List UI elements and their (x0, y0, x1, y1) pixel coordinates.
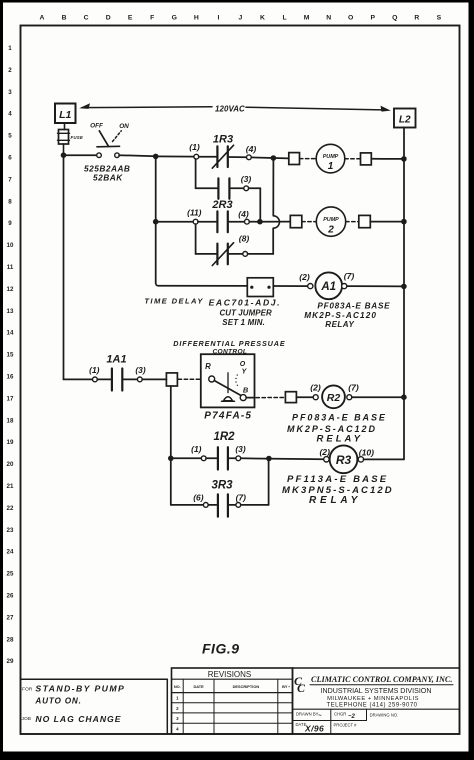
pin (2) of R3 (324, 457, 329, 462)
svg-text:P: P (370, 15, 375, 22)
svg-text:(2): (2) (319, 447, 330, 457)
pin (10) of R3 (358, 457, 363, 462)
svg-text:PF083A-E BASE: PF083A-E BASE (317, 302, 390, 311)
svg-text:(7): (7) (344, 271, 355, 281)
dashed wire to pump1 (300, 158, 317, 160)
svg-text:17: 17 (7, 395, 14, 402)
svg-text:3R3: 3R3 (211, 479, 233, 491)
wire pin4 to node (249, 221, 290, 223)
terminal L2 (394, 109, 416, 128)
pin (7) of 3R3 (236, 503, 241, 508)
svg-text:26: 26 (7, 593, 14, 600)
node rail R2 row (401, 394, 407, 400)
svg-text:9: 9 (8, 220, 12, 227)
terminal L1 (55, 104, 76, 124)
wire pressure control to box (246, 397, 254, 399)
terminal box diff-pressure left (166, 373, 177, 386)
svg-text:N: N (326, 15, 331, 22)
svg-text:3: 3 (8, 89, 12, 96)
svg-text:D: D (106, 15, 111, 22)
svg-text:16: 16 (7, 374, 14, 381)
company block (293, 667, 460, 669)
node rail row1 (401, 156, 407, 162)
svg-text:B: B (243, 386, 249, 395)
svg-text:INDUSTRIAL SYSTEMS DIVISION: INDUSTRIAL SYSTEMS DIVISION (321, 687, 432, 695)
svg-text:23: 23 (7, 527, 14, 534)
node row2 output (257, 219, 263, 225)
svg-text:CUT JUMPER: CUT JUMPER (220, 308, 272, 317)
svg-text:2: 2 (8, 67, 12, 74)
arrowhead to L2 (381, 106, 391, 112)
svg-text:(11): (11) (187, 208, 201, 218)
svg-text:CONTROL: CONTROL (213, 348, 248, 355)
svg-text:DATE: DATE (193, 684, 204, 689)
svg-text:ON: ON (119, 123, 129, 130)
svg-text:MILWAUKEE + MINNEAPOLIS: MILWAUKEE + MINNEAPOLIS (327, 696, 419, 702)
svg-text:22: 22 (7, 505, 14, 512)
svg-text:~: ~ (318, 714, 322, 720)
wire L2 rail (403, 128, 405, 460)
svg-text:6: 6 (8, 155, 12, 162)
svg-text:SET 1 MIN.: SET 1 MIN. (222, 318, 265, 327)
svg-text:L: L (282, 15, 286, 22)
svg-text:(6): (6) (193, 492, 203, 502)
terminal box pump1 left (289, 153, 300, 165)
svg-text:21: 21 (7, 483, 14, 490)
svg-text:JOB: JOB (22, 716, 32, 722)
node 1R2 row (168, 456, 174, 462)
svg-text:2: 2 (327, 224, 334, 235)
svg-text:1R3: 1R3 (213, 134, 233, 146)
pin (8) (243, 252, 248, 257)
pin (2) of R2 (313, 395, 318, 400)
svg-text:C: C (84, 15, 89, 22)
relay coil A1 (315, 272, 342, 299)
pin (6) of 3R3 (203, 503, 208, 508)
svg-text:TIME DELAY: TIME DELAY (144, 297, 203, 306)
wire L1 to switch (64, 154, 97, 156)
wire ladder bus down (155, 156, 157, 283)
time delay relay EAC701 (247, 278, 273, 297)
relay coil R3 (330, 445, 358, 473)
dashed wire to pump2 (302, 221, 316, 223)
svg-text:RELAY: RELAY (325, 320, 354, 329)
svg-text:2R3: 2R3 (211, 199, 232, 211)
svg-text:29: 29 (7, 658, 14, 665)
svg-text:10: 10 (7, 242, 14, 249)
svg-text:G: G (172, 15, 177, 22)
svg-text:P74FA-5: P74FA-5 (204, 410, 252, 421)
svg-text:(3): (3) (235, 444, 245, 454)
wire bus to 1A1 (64, 378, 93, 380)
pin (1) of 1R3 (194, 154, 199, 159)
wire branch3 to row2 (249, 187, 261, 189)
svg-text:PUMP: PUMP (323, 217, 339, 223)
wire 1A1 node down (170, 386, 172, 505)
svg-text:A: A (40, 15, 45, 22)
wire branch3 drop (195, 159, 197, 188)
pin (2) of A1 (308, 284, 313, 289)
terminal box pump1 right (361, 153, 372, 165)
svg-text:E: E (128, 15, 133, 22)
svg-text:X/96: X/96 (304, 724, 324, 734)
contact 2R3 aux (NO) (217, 178, 219, 198)
svg-text:L1: L1 (59, 109, 71, 121)
svg-text:18: 18 (7, 417, 14, 424)
svg-text:Q: Q (392, 15, 397, 22)
wire row1 bus to pin1 (156, 155, 194, 157)
svg-text:F: F (150, 15, 154, 22)
svg-text:NO LAG CHANGE: NO LAG CHANGE (35, 714, 121, 724)
svg-text:DIFFERENTIAL PRESSUAE: DIFFERENTIAL PRESSUAE (173, 339, 285, 348)
svg-text:M: M (304, 15, 310, 22)
svg-text:1: 1 (328, 161, 334, 172)
svg-text:J: J (239, 15, 243, 22)
wire branch8 drop (195, 224, 197, 254)
svg-text:DRAWN BY: DRAWN BY (296, 712, 319, 717)
svg-text:25: 25 (7, 571, 14, 578)
motor PUMP 2 (316, 207, 345, 236)
svg-text:A1: A1 (320, 281, 336, 293)
svg-text:(2): (2) (299, 272, 310, 282)
wire left bus L1 down (63, 155, 65, 379)
wire 1A1 to terminal box (142, 378, 166, 380)
wire switch to bus (119, 155, 156, 156)
svg-text:CHGR: CHGR (334, 712, 346, 717)
node L1 bus junction (61, 152, 67, 158)
terminal box pump2 left (290, 215, 302, 227)
svg-text:(2): (2) (310, 383, 321, 393)
svg-text:K: K (260, 15, 265, 22)
svg-text:PUMP: PUMP (323, 154, 339, 160)
svg-text:15: 15 (7, 352, 14, 359)
svg-text:(7): (7) (348, 383, 359, 393)
svg-text:1A1: 1A1 (106, 354, 126, 366)
wire pump1 to L2 rail (371, 158, 404, 160)
svg-text:EAC701-ADJ.: EAC701-ADJ. (209, 298, 282, 308)
svg-text:(3): (3) (135, 365, 145, 375)
arrowhead to L1 (79, 103, 90, 109)
svg-text:11: 11 (7, 264, 14, 271)
wire box to R2 (296, 396, 313, 398)
fuse FU (64, 123, 66, 130)
svg-text:R: R (205, 362, 211, 371)
pin (4) of 1R3 (247, 155, 252, 160)
svg-text:1: 1 (8, 45, 12, 52)
svg-text:~2: ~2 (348, 714, 356, 720)
node bus row2 (153, 219, 159, 225)
revisions table (172, 668, 293, 734)
job box (21, 678, 168, 680)
wire row1 node down with crossover hop (272, 158, 274, 216)
wire R3 to L2 rail (364, 458, 404, 460)
svg-text:(1): (1) (189, 142, 200, 152)
svg-text:STAND-BY PUMP: STAND-BY PUMP (35, 684, 125, 694)
pin (7) of A1 (342, 284, 347, 289)
svg-text:20: 20 (7, 461, 14, 468)
svg-text:RELAY: RELAY (309, 495, 361, 506)
node 3R3 join (266, 456, 272, 462)
svg-text:(1): (1) (191, 444, 201, 454)
svg-text:52BAK: 52BAK (93, 173, 123, 183)
wire 120VAC feeder (82, 106, 212, 109)
svg-text:PF113A-E BASE: PF113A-E BASE (287, 474, 388, 485)
svg-text:B: B (62, 15, 67, 22)
svg-text:FIG.9: FIG.9 (202, 641, 240, 657)
contact 1R3 (NC) (199, 156, 217, 158)
contact 1R2 (NO) (206, 457, 217, 459)
pin (11) of 2R3 (193, 219, 198, 224)
switch 525B2AAB 52BAK (97, 153, 102, 158)
pin (3) of 1R2 (236, 456, 241, 461)
terminal box pump2 right (359, 215, 371, 227)
svg-text:DESCRIPTION: DESCRIPTION (233, 684, 260, 689)
svg-text:R: R (414, 15, 419, 22)
svg-text:(1): (1) (89, 365, 99, 375)
svg-text:19: 19 (7, 439, 14, 446)
wire 3R3 up to R3 row (241, 504, 269, 506)
svg-text:C: C (297, 681, 306, 695)
svg-text:7: 7 (8, 176, 12, 183)
svg-text:NO.: NO. (174, 684, 181, 689)
node bus row1 (153, 154, 159, 160)
svg-text:OFF: OFF (90, 123, 104, 130)
svg-text:(10): (10) (359, 448, 374, 458)
node row1 output (271, 155, 277, 161)
dashed wire to R2 terminal box (256, 397, 285, 399)
wire A1 to L2 rail (347, 285, 404, 287)
contact 3R3 (NO) (208, 504, 216, 506)
svg-text:(7): (7) (236, 493, 246, 503)
terminal box R2 (285, 392, 296, 403)
svg-text:L2: L2 (399, 115, 411, 126)
wire pin4 to node (251, 157, 288, 158)
svg-text:O: O (348, 15, 353, 22)
svg-text:120VAC: 120VAC (215, 105, 245, 114)
svg-text:PF083A-E BASE: PF083A-E BASE (292, 412, 387, 422)
svg-text:O: O (240, 361, 246, 368)
svg-text:MK2P-S-AC120: MK2P-S-AC120 (304, 311, 377, 320)
wire bus to time delay (159, 285, 248, 287)
pin (7) of R2 (347, 395, 352, 400)
wire R2 to L2 rail (352, 396, 404, 398)
contact 1A1 (NO) (97, 378, 110, 380)
pin (1) of 1A1 (93, 377, 98, 382)
svg-text:I: I (217, 15, 219, 22)
svg-text:(4): (4) (246, 144, 257, 154)
node rail row2 (401, 219, 407, 225)
svg-text:TELEPHONE (414) 259-9070: TELEPHONE (414) 259-9070 (326, 703, 417, 709)
svg-text:H: H (194, 15, 199, 22)
wire row2 bus to pin11 (156, 221, 194, 223)
svg-text:RELAY: RELAY (317, 433, 364, 444)
dashed wire pump2 to box (346, 221, 359, 223)
wire to 1R2 (171, 457, 202, 459)
svg-text:R3: R3 (336, 453, 352, 467)
differential pressure control P74FA-5 (201, 354, 255, 407)
svg-text:PROJECT #: PROJECT # (334, 723, 358, 728)
dashed wire pump1 to box (345, 158, 361, 160)
contact 2R3 (NO) (198, 221, 216, 223)
svg-text:AUTO ON.: AUTO ON. (34, 697, 81, 706)
wire time delay to A1 (273, 285, 308, 287)
motor PUMP 1 (316, 144, 345, 173)
svg-text:(4): (4) (238, 209, 249, 219)
svg-text:REVISIONS: REVISIONS (208, 670, 252, 679)
pin (3) of 1A1 (137, 377, 142, 382)
pin (3) (244, 186, 249, 191)
wire to 3R3 (171, 504, 204, 506)
wire pump2 to L2 rail (370, 221, 404, 223)
pin (4) of 2R3 (245, 219, 250, 224)
dashed wire to pressure control (178, 378, 201, 380)
pin (1) of 1R2 (201, 456, 206, 461)
node rail A1 row (401, 284, 407, 290)
svg-text:(8): (8) (239, 234, 250, 244)
svg-text:27: 27 (7, 614, 14, 621)
wire branch8 to hook (248, 253, 274, 255)
svg-text:5: 5 (8, 133, 12, 140)
svg-text:CLIMATIC CONTROL COMPANY, INC.: CLIMATIC CONTROL COMPANY, INC. (311, 675, 452, 684)
svg-text:8: 8 (8, 198, 12, 205)
contact 1R3 aux (NC) (216, 244, 218, 265)
svg-text:S: S (437, 15, 442, 22)
svg-text:FOR: FOR (22, 687, 33, 693)
relay coil R2 (322, 385, 345, 408)
svg-text:R2: R2 (327, 392, 341, 404)
svg-text:4: 4 (8, 111, 12, 118)
scan border bars (0, 0, 474, 3)
svg-text:(3): (3) (241, 174, 252, 184)
svg-text:24: 24 (7, 549, 14, 556)
svg-text:1R2: 1R2 (213, 431, 235, 443)
svg-text:DRAWING NO.: DRAWING NO. (370, 712, 399, 717)
wire 1R2 to R3 (241, 457, 324, 460)
svg-text:13: 13 (7, 308, 14, 315)
svg-text:FUSE: FUSE (71, 135, 84, 140)
svg-text:28: 28 (7, 636, 14, 643)
svg-text:12: 12 (7, 286, 14, 293)
svg-text:14: 14 (7, 330, 14, 337)
